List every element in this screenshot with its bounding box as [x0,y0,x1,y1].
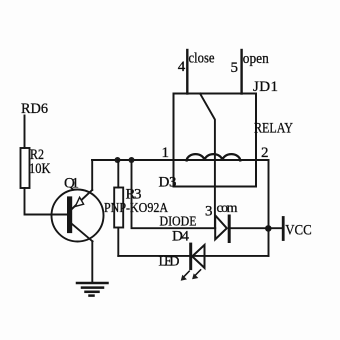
led arrow 2 [192,270,201,280]
relay coil [187,154,241,160]
power VCC terminal [282,218,285,240]
wire node line to relay pin1 and pin2 [92,159,269,161]
svg-text:1: 1 [162,145,170,161]
junction dot C [265,225,272,232]
relay switch arm [200,94,215,229]
svg-text:VCC: VCC [285,222,312,238]
svg-text:D3: D3 [159,175,177,191]
svg-text:5: 5 [231,60,239,76]
svg-text:PNP-KO92A: PNP-KO92A [104,201,169,216]
svg-text:open: open [243,51,269,67]
svg-text:com: com [217,201,238,216]
wire RD6 stub [24,116,26,149]
resistor R3 [114,160,123,256]
svg-text:D4: D4 [172,229,190,245]
svg-text:close: close [189,51,215,67]
svg-text:3: 3 [205,204,213,220]
diode D4 [215,215,283,241]
svg-text:10K: 10K [29,161,51,177]
wire R2 bottom lead [25,188,68,215]
svg-text:2: 2 [261,145,269,161]
led arrow 1 [181,271,190,281]
resistor R2 [21,148,30,188]
transistor Q1 [52,190,104,242]
wire pin2 down right side [268,160,270,256]
svg-text:LED: LED [159,255,180,270]
junction dot B [129,157,135,163]
svg-text:DIODE: DIODE [160,215,197,230]
relay pin 4 [186,50,188,94]
svg-text:4: 4 [178,59,186,75]
relay JD1 box [174,94,257,187]
svg-text:JD1: JD1 [253,79,278,95]
junction dot A [115,157,121,163]
wire led line [118,255,268,257]
relay pin 5 [240,50,242,94]
wire junction B down to diode line [132,160,216,228]
wire emitter to node [91,160,93,190]
wire collector to ground [91,241,93,283]
ground [77,283,108,296]
svg-text:Q1: Q1 [64,176,79,192]
led D5 [191,244,205,269]
svg-text:RELAY: RELAY [254,121,293,137]
svg-text:RD6: RD6 [21,101,48,117]
